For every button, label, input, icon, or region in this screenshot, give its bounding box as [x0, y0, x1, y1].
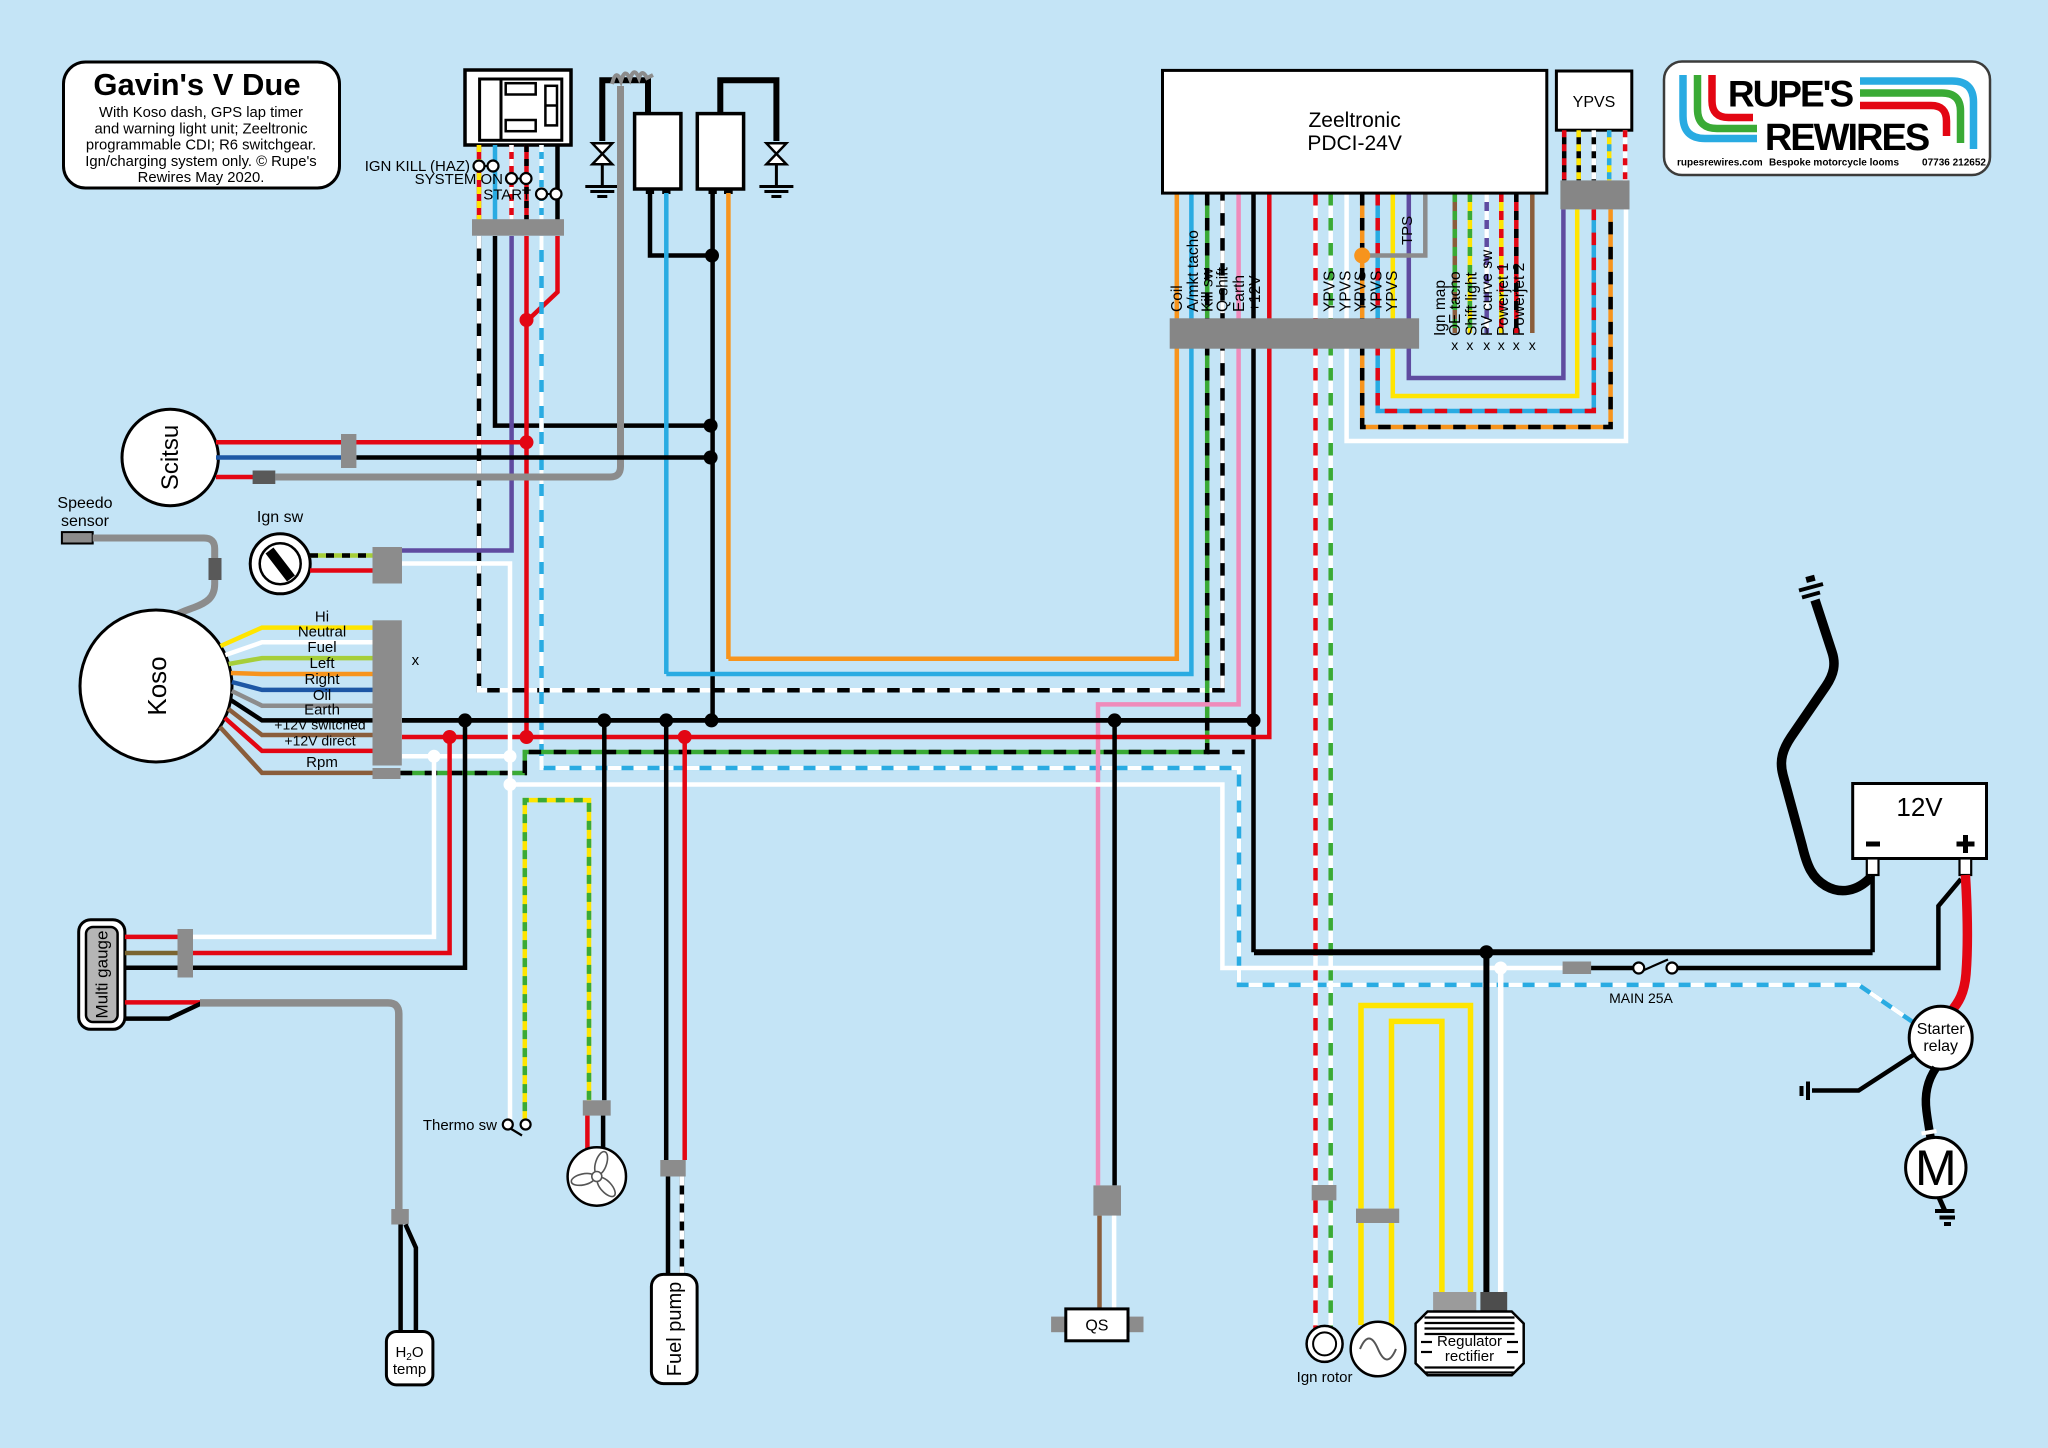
- wire: white to regulator: [1498, 968, 1504, 1292]
- wire: Koso Hi yellow: [221, 628, 373, 646]
- coil 2 terminals: [709, 189, 717, 194]
- svg-text:PV curve sw: PV curve sw: [1479, 249, 1496, 336]
- wire: YPVS box lead 5 white/red: [1623, 130, 1628, 180]
- handlebar switch unit: [465, 70, 571, 145]
- connector: Koso grey bar: [373, 620, 402, 765]
- svg-text:Bespoke motorcycle looms: Bespoke motorcycle looms: [1769, 158, 1899, 169]
- wire: alternator yellow outer loop: [1358, 1223, 1364, 1325]
- node: coils earth join: [705, 249, 719, 263]
- svg-text:Zeeltronic: Zeeltronic: [1308, 109, 1400, 132]
- fuel pump: [651, 1274, 697, 1383]
- svg-text:+12V switched: +12V switched: [274, 717, 365, 733]
- wire: Koso +12V switched brown: [228, 709, 372, 735]
- spark plug 1: [592, 143, 612, 186]
- HT coil scribble: [612, 72, 653, 84]
- node: red junction at scitsu feed: [520, 435, 534, 449]
- regulator rectifier: [1416, 1312, 1524, 1376]
- wire: black/white dashed Q-shift run (handlebar to CDI): [479, 193, 1223, 690]
- speedo sensor body: [62, 532, 93, 543]
- ground plug 1: [585, 187, 619, 197]
- wire: Koso Neutral white: [225, 642, 372, 655]
- wire: QS white: [1112, 1216, 1117, 1309]
- connector: H2O inline grey: [391, 1209, 409, 1225]
- wire: white down to multi gauge: [193, 756, 434, 937]
- wire: relay to starter motor heavy: [1926, 1068, 1936, 1137]
- ground: starter motor: [1935, 1211, 1955, 1224]
- wire: red start jog: [528, 236, 558, 320]
- node: red junction: [520, 313, 534, 327]
- alternator: [1351, 1322, 1406, 1377]
- wire: black earth main run: [402, 718, 1254, 723]
- wire: white neutral link: [402, 754, 510, 759]
- wire: black thick to regulator: [1483, 952, 1489, 1292]
- Zeeltronic CDI box: [1163, 70, 1547, 193]
- wire: grey TPS link: [1369, 193, 1425, 256]
- svg-text:programmable CDI; R6 switchgea: programmable CDI; R6 switchgear.: [86, 138, 316, 154]
- svg-text:Koso: Koso: [142, 656, 172, 715]
- wire: grey capillary to H2O sensor: [200, 1003, 399, 1209]
- wire: black from switch to coil earth: [495, 236, 711, 426]
- wire: Koso Oil grey: [232, 691, 373, 706]
- Scitsu tacho: [122, 409, 218, 505]
- svg-text:Fuel: Fuel: [307, 639, 336, 656]
- wire: white YPVS 1: [1347, 193, 1626, 441]
- wire: Scitsu red pickup: [216, 475, 254, 480]
- svg-text:relay: relay: [1923, 1038, 1958, 1055]
- connector: alternator grey: [1356, 1209, 1399, 1223]
- wire: multi gauge brown: [125, 951, 178, 956]
- switch contacts START: [536, 189, 562, 200]
- wire: yellow/green OE tacho: [1468, 193, 1473, 333]
- svg-text:TPS: TPS: [1399, 216, 1416, 245]
- wire: battery negative run: [1254, 949, 1873, 955]
- wire: red/black Powerjet 1: [1514, 193, 1519, 333]
- svg-text:Multi gauge: Multi gauge: [93, 931, 112, 1019]
- Rupe's Rewires logo: [1664, 62, 1990, 176]
- connector: fuel pump grey: [660, 1160, 685, 1177]
- main fuse contacts: [1633, 960, 1677, 974]
- node: black junction coils/handlebar: [704, 419, 718, 433]
- wire: orange/black YPVS 2: [1362, 193, 1610, 427]
- svg-text:YPVS: YPVS: [1353, 271, 1370, 312]
- wire: coil 2 + coils earth vertical: [710, 193, 715, 720]
- svg-text:OE tacho: OE tacho: [1447, 271, 1464, 336]
- svg-text:Earth: Earth: [1231, 275, 1248, 312]
- svg-text:x: x: [1513, 337, 1520, 353]
- QS box: [1051, 1309, 1143, 1341]
- wire: ign kill red/yellow from switch: [477, 145, 482, 220]
- starter relay: [1909, 1006, 1972, 1069]
- switch contacts SYSTEM ON: [506, 173, 532, 184]
- connector: fan grey: [583, 1100, 611, 1115]
- wire: green/black CDI kill sw to Koso rpm tab: [401, 193, 1208, 773]
- wire: black scitsu to coils earth: [356, 455, 710, 460]
- svg-text:PDCI-24V: PDCI-24V: [1307, 132, 1402, 155]
- x terminators for spare outputs: [1451, 337, 1536, 353]
- svg-text:Powerjet 1: Powerjet 1: [1495, 263, 1512, 336]
- wire: Koso Rpm brown: [220, 727, 373, 773]
- wire: battery negative heavy cable to frame: [1781, 600, 1871, 891]
- coil 1 terminals: [646, 189, 654, 194]
- wire: black down to fan: [602, 720, 607, 1100]
- wire: yellow/red PV curve sw: [1499, 193, 1504, 333]
- spark plug 2: [766, 143, 786, 186]
- svg-text:Powerjet 2: Powerjet 2: [1511, 263, 1528, 336]
- wire: blue/red YPVS 3: [1378, 193, 1594, 411]
- svg-text:MAIN 25A: MAIN 25A: [1609, 990, 1673, 1006]
- ground: relay: [1802, 1082, 1809, 1101]
- connector: YPVS grey bar: [1560, 180, 1629, 209]
- svg-text:07736 212652: 07736 212652: [1922, 158, 1986, 169]
- connector: QS grey: [1093, 1185, 1121, 1215]
- svg-text:Ign rotor: Ign rotor: [1297, 1369, 1353, 1386]
- wire: black dashed kill link to earth: [1207, 750, 1254, 755]
- ignition coil 1: [635, 114, 681, 189]
- svg-text:+12V direct: +12V direct: [284, 733, 355, 749]
- wire: brown Powerjet 2: [1530, 193, 1535, 333]
- wire: YPVS box lead 4 yellow/blue: [1607, 130, 1612, 180]
- wire: white branch to fusebox run: [510, 785, 1563, 969]
- nodes white: [428, 750, 441, 763]
- Multi gauge: [79, 920, 125, 1030]
- svg-text:With Koso dash, GPS lap timer: With Koso dash, GPS lap timer: [99, 105, 303, 121]
- ground plug 2: [759, 187, 793, 197]
- wire: purple from switch to ign sw connector: [402, 236, 512, 551]
- wire: Koso Left orange: [231, 673, 373, 674]
- svg-text:and warning light unit; Zeeltr: and warning light unit; Zeeltronic: [94, 121, 308, 137]
- connector: ign sw grey: [373, 547, 403, 584]
- wire: red/white dashed CDI to ign rotor: [1313, 193, 1318, 1185]
- svg-text:Ign/charging system only. © Ru: Ign/charging system only. © Rupe's: [85, 154, 316, 170]
- svg-text:sensor: sensor: [61, 513, 110, 530]
- wire: alternator yellow inner loop: [1389, 1223, 1395, 1325]
- svg-text:YPVS: YPVS: [1573, 94, 1616, 111]
- svg-text:Left: Left: [309, 655, 335, 672]
- svg-text:SYSTEM ON: SYSTEM ON: [415, 171, 503, 188]
- wire: QS brown: [1097, 1216, 1102, 1309]
- wire: black down to QS: [1112, 720, 1117, 1186]
- nodes on +12V run: [443, 730, 457, 744]
- svg-text:Neutral: Neutral: [298, 624, 346, 641]
- wire: red/black from switch: [524, 145, 529, 220]
- svg-text:Rpm: Rpm: [306, 754, 338, 771]
- connector gap on starter cable: [1922, 1131, 1937, 1134]
- svg-text:Gavin's V Due: Gavin's V Due: [93, 67, 300, 102]
- wire: red down to multi gauge: [193, 737, 450, 953]
- svg-text:temp: temp: [393, 1361, 426, 1378]
- connector: main fuse grey: [1563, 962, 1592, 975]
- wire: purple YPVS 5: [1409, 193, 1564, 378]
- svg-text:QS: QS: [1085, 1318, 1108, 1335]
- svg-text:rectifier: rectifier: [1445, 1348, 1494, 1365]
- svg-text:Speedo: Speedo: [57, 495, 112, 512]
- wire: multi gauge red 2: [125, 1000, 202, 1005]
- wire: Koso Right blue: [232, 682, 373, 690]
- fan motor: [568, 1147, 626, 1205]
- connector: regulator dark grey: [1480, 1292, 1507, 1312]
- ignition switch: [250, 509, 310, 594]
- wire: light blue CDI A/mkt tacho: [666, 193, 1191, 674]
- svg-text:Ign sw: Ign sw: [257, 509, 304, 526]
- svg-text:rupesrewires.com: rupesrewires.com: [1677, 158, 1763, 169]
- svg-text:M: M: [1915, 1140, 1957, 1196]
- wire: red/white from switch: [509, 145, 514, 220]
- wire: grey speedo cable upper: [93, 538, 215, 559]
- svg-text:x: x: [412, 652, 420, 669]
- wire: red down to fuel pump connector: [682, 737, 687, 1160]
- svg-text:Scitsu: Scitsu: [157, 425, 184, 490]
- wire: red main vertical: [524, 236, 529, 737]
- wire: light blue coil 1 feed: [664, 193, 669, 674]
- svg-text:Q shift: Q shift: [1215, 267, 1232, 312]
- wire: purple/white Shift light: [1484, 193, 1489, 333]
- Koso dash: [80, 610, 232, 762]
- wire: grey speedo cable lower: [170, 580, 215, 624]
- svg-text:x: x: [1483, 337, 1490, 353]
- svg-text:Right: Right: [304, 671, 340, 688]
- wire: black CDI earth vertical: [1251, 193, 1256, 952]
- svg-text:Rewires May 2020.: Rewires May 2020.: [138, 170, 265, 186]
- wire: black fuse link: [1591, 966, 1633, 971]
- wire: YPVS box lead 3 black/white: [1592, 130, 1597, 180]
- wire: ign sw red: [310, 568, 373, 573]
- connector: handlebar grey bar: [472, 219, 564, 236]
- thermo switch contacts: [503, 1120, 531, 1136]
- wire: light blue from switch: [493, 145, 498, 220]
- svg-text:START: START: [483, 187, 531, 204]
- wire: YPVS box lead 1 black/red: [1562, 130, 1567, 180]
- nodes on earth run: [458, 713, 472, 727]
- wire: H2O sensor black pair: [398, 1225, 403, 1332]
- svg-text:REWIRES: REWIRES: [1765, 117, 1929, 159]
- wire: Koso +12V direct red: [225, 718, 373, 751]
- ground: battery negative: [1799, 575, 1823, 598]
- connector: scitsu pickup dark grey: [253, 471, 276, 485]
- node: black junction coils/scitsu: [704, 451, 718, 465]
- wire: coil 1 earth: [650, 193, 712, 256]
- wire: grey tacho pickup from Scitsu up to HT lead: [275, 86, 620, 477]
- wire: relay earth lead: [1812, 1054, 1916, 1091]
- svg-text:YPVS: YPVS: [1322, 271, 1339, 312]
- node: black tap to regulator: [1479, 945, 1493, 959]
- ign rotor pickup: [1297, 1326, 1353, 1386]
- H2O temp sensor box: [386, 1332, 433, 1385]
- svg-text:Starter: Starter: [1917, 1021, 1966, 1038]
- wire: pink CDI to QS: [1098, 193, 1239, 1185]
- wire: red CDI +12V run to Koso connector: [402, 193, 1269, 737]
- svg-text:YPVS: YPVS: [1369, 271, 1386, 312]
- wire: fan black: [601, 1116, 606, 1149]
- wire: Scitsu blue: [216, 455, 341, 460]
- switch contacts IGN KILL: [474, 161, 499, 172]
- svg-text:RUPE'S: RUPE'S: [1728, 74, 1854, 115]
- svg-text:x: x: [1466, 337, 1473, 353]
- connector: ign rotor grey: [1312, 1185, 1337, 1200]
- wire: fuel pump black: [666, 1177, 671, 1275]
- wire: black down to fuel pump connector: [664, 720, 669, 1160]
- node: white tap to regulator: [1494, 962, 1507, 975]
- connector: Koso rpm tab: [373, 768, 401, 779]
- Koso wire labels: [274, 609, 365, 772]
- svg-text:YPVS: YPVS: [1384, 271, 1401, 312]
- title box: [64, 62, 340, 188]
- wire: orange coil 2 feed: [726, 193, 731, 659]
- connector: speedo inline dark grey: [209, 558, 222, 580]
- wire: fan red: [585, 1116, 590, 1150]
- svg-text:12V: 12V: [1896, 792, 1943, 822]
- wire: multi gauge black 2: [125, 1004, 201, 1019]
- wire: HT lead coil 2 to plug 2: [720, 80, 776, 141]
- connector: CDI grey bar: [1170, 318, 1419, 348]
- starter motor: [1906, 1137, 1966, 1197]
- wire: black down to multi gauge: [193, 720, 465, 967]
- wire: white ign feed down to thermo switch: [402, 564, 510, 1120]
- wire: multi gauge black: [125, 965, 178, 970]
- wire: green/white dashed CDI to ign rotor: [1328, 193, 1333, 1185]
- wire: fuel pump black/white dashed: [680, 1177, 685, 1275]
- svg-text:x: x: [1498, 337, 1505, 353]
- connector: regulator light grey: [1433, 1292, 1476, 1312]
- wire: Scitsu red to main red: [216, 440, 527, 445]
- wire: brown/green Ign map: [1453, 193, 1458, 333]
- wire: starter motor earth: [1939, 1198, 1945, 1211]
- ignition coil 2: [697, 114, 743, 189]
- wire: Koso Earth black: [231, 700, 373, 720]
- YPVS servo box: [1556, 71, 1631, 130]
- connector: scitsu grey: [341, 434, 356, 468]
- wire: main fuse black to battery positive: [1678, 879, 1962, 968]
- svg-text:x: x: [1451, 337, 1458, 353]
- wire: black from switch: [555, 145, 560, 220]
- wire: HT lead coil 1 to plug 1: [602, 80, 648, 141]
- wire: yellow/green thermo-fan loop: [525, 800, 589, 1129]
- wire: red/white dashed to rotor: [1313, 1200, 1318, 1330]
- svg-text:Shift light: Shift light: [1464, 272, 1481, 336]
- connector: multi gauge grey: [178, 929, 194, 978]
- wire: multi gauge red: [125, 935, 178, 940]
- wire: green/white dashed to rotor: [1328, 1200, 1333, 1330]
- node: TPS orange tap: [1354, 248, 1370, 264]
- svg-text:x: x: [1529, 337, 1536, 353]
- battery: [1853, 784, 1987, 876]
- wire: ign sw green/black: [310, 553, 373, 558]
- wire: battery negative drop: [1870, 875, 1875, 952]
- wire: Koso Fuel yellow-green: [229, 658, 373, 664]
- svg-text:Fuel pump: Fuel pump: [664, 1282, 686, 1377]
- wire: blue/white dashed main run to starter relay: [542, 236, 1913, 1022]
- svg-text:Thermo sw: Thermo sw: [423, 1117, 497, 1134]
- wire: YPVS box lead 2 black/yellow: [1576, 130, 1581, 180]
- svg-text:Coil: Coil: [1169, 285, 1186, 312]
- wire: yellow YPVS 4: [1393, 193, 1577, 396]
- wire: orange CDI Coil output: [728, 193, 1176, 659]
- wire: battery positive heavy cable to relay: [1951, 875, 1968, 1012]
- wire: blue/white from switch: [539, 145, 544, 220]
- svg-text:+12V: +12V: [1247, 275, 1264, 312]
